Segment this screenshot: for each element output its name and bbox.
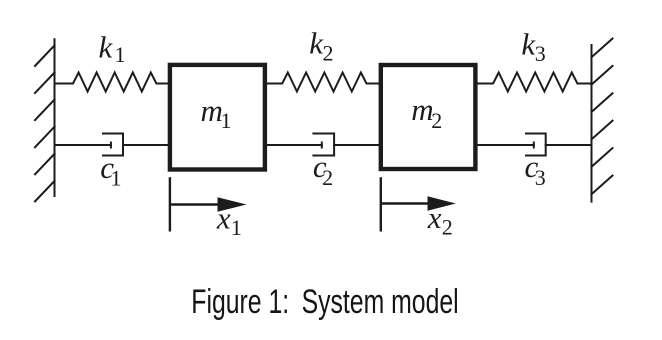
- x2 reference vertical line: [380, 177, 382, 231]
- right wall hatch 2: [592, 66, 613, 85]
- damper c3 rod: [478, 144, 534, 146]
- x1 arrow shaft: [170, 203, 221, 205]
- svg-text:1: 1: [115, 42, 126, 67]
- damper c1 rod: [55, 144, 111, 146]
- damper c2 rod: [267, 144, 322, 146]
- x1 reference vertical line: [169, 177, 171, 231]
- left wall hatch 1: [35, 45, 55, 66]
- spring k2: [267, 73, 379, 92]
- left wall hatch 3: [35, 100, 55, 121]
- right wall hatch 5: [592, 148, 613, 167]
- svg-text:2: 2: [322, 165, 333, 190]
- svg-text:2: 2: [431, 108, 442, 133]
- left wall hatch 4: [35, 127, 55, 148]
- damper c1 right lead: [123, 144, 168, 146]
- svg-text:x: x: [427, 200, 442, 235]
- svg-text:2: 2: [442, 214, 453, 239]
- svg-text:3: 3: [535, 41, 546, 66]
- damper c1 cylinder: [103, 134, 123, 156]
- right wall hatch 3: [592, 93, 613, 112]
- svg-text:Figure 1: System model: Figure 1: System model: [191, 283, 458, 321]
- svg-text:1: 1: [221, 108, 232, 133]
- damper c2 cylinder: [313, 134, 334, 156]
- damper c1 piston: [110, 143, 112, 148]
- mass m2 box: [381, 65, 476, 169]
- left wall hatch 2: [35, 73, 55, 94]
- svg-text:1: 1: [111, 166, 122, 191]
- right wall hatch 4: [592, 121, 613, 140]
- right wall hatch 6: [592, 176, 613, 195]
- right wall hatch 1: [592, 39, 613, 58]
- damper c3 right lead: [546, 144, 592, 146]
- x2 arrowhead: [428, 196, 456, 211]
- right wall line: [591, 45, 593, 202]
- x2 arrow shaft: [381, 202, 431, 204]
- damper c2 piston: [321, 143, 323, 148]
- svg-text:2: 2: [323, 40, 334, 65]
- damper c3 piston: [533, 143, 535, 148]
- damper c3 cylinder: [526, 134, 546, 156]
- x1 arrowhead: [218, 197, 247, 212]
- damper c2 right lead: [334, 144, 379, 146]
- spring k1: [55, 73, 168, 92]
- left wall line: [54, 39, 56, 196]
- svg-text:k: k: [99, 29, 114, 64]
- svg-text:x: x: [216, 201, 231, 236]
- svg-text:1: 1: [231, 215, 242, 240]
- svg-text:3: 3: [535, 165, 546, 190]
- mass m1 box: [170, 65, 265, 170]
- left wall hatch 6: [35, 181, 55, 202]
- spring k3: [478, 73, 592, 92]
- left wall hatch 5: [35, 154, 55, 175]
